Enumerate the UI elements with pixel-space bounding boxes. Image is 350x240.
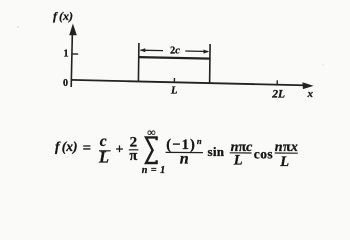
y-axis shaft [71,31,72,87]
pulse right edge [209,44,212,84]
dimension arrow left line [141,49,164,51]
formula fraction npix/L bar [275,152,298,154]
svg-text:2L: 2L [271,89,285,101]
x-axis [71,80,307,86]
dimension arrow right line [185,50,208,53]
x-axis arrowhead [303,82,314,89]
svg-text:n: n [180,150,189,167]
formula fraction 2/pi bar [129,149,139,151]
svg-text:L: L [279,154,289,170]
svg-text:=: = [83,141,92,157]
dimension arrow left head [140,48,146,52]
svg-text:n = 1: n = 1 [142,165,166,176]
svg-text:L: L [233,153,243,169]
scan speck upper-right [322,64,324,66]
y-axis arrowhead [69,24,77,36]
svg-text:0: 0 [63,78,68,89]
svg-text:L: L [98,148,109,167]
svg-text:f (x): f (x) [55,139,78,154]
pulse top [139,57,210,59]
tick 1 on y-axis [72,53,78,55]
svg-text:x: x [307,88,314,100]
svg-text:∞: ∞ [147,127,155,139]
formula fraction npic/L bar [230,152,252,154]
formula fraction c/L bar [99,150,111,152]
svg-text:+: + [116,143,124,158]
svg-text:L: L [170,86,177,97]
tick L [173,78,175,83]
dimension arrow right head [204,50,210,54]
svg-text:cos: cos [254,147,273,162]
formula fraction (-1)^n/n bar [166,151,203,153]
svg-text:1: 1 [64,49,69,60]
svg-text:π: π [129,148,137,164]
formula sigma summation [146,137,157,163]
svg-text:sin: sin [208,144,225,159]
tick 2L [276,80,278,85]
svg-text:f (x): f (x) [53,9,73,23]
svg-text:2c: 2c [170,46,180,57]
scan speck upper-left [17,26,19,28]
pulse left edge [137,43,140,82]
